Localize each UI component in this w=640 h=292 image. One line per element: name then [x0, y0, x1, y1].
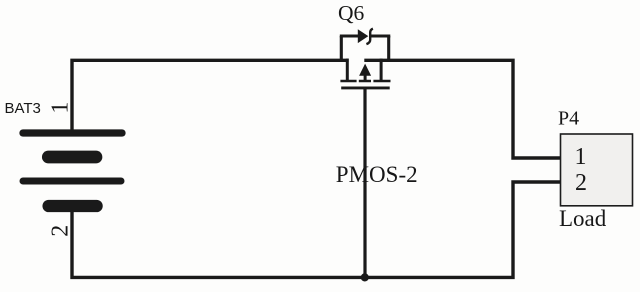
- svg-text:P4: P4: [558, 108, 579, 130]
- svg-text:2: 2: [48, 225, 74, 237]
- body-diode cathode lead: [371, 34, 391, 37]
- Q6 channel segment left: [340, 80, 356, 83]
- Q6 bulk arrow head (points up, PMOS): [359, 64, 371, 76]
- wire: gate lead down to bottom rail: [363, 89, 366, 277]
- battery BAT3 plate 2 (short plate): [48, 151, 96, 164]
- Q6 drain contact stub (right): [380, 59, 383, 80]
- Q6 channel segment center: [359, 80, 371, 83]
- Q6 gate plate: [341, 86, 390, 89]
- wire: P4 pin 2 stub, right vertical down, bottom rail, left vertical to battery negative: [72, 182, 561, 277]
- wire: battery positive to top rail (left vertical + top rail left segment): [72, 60, 349, 133]
- battery BAT3 plate 4 (short negative plate): [49, 200, 97, 212]
- Q6 channel segment right: [373, 80, 390, 83]
- Q6 bulk arrow shaft: [364, 74, 367, 82]
- svg-text:2: 2: [575, 170, 587, 196]
- body-diode anode lead: [340, 34, 358, 37]
- wire: top rail right segment, right vertical down to P4 pin 1 stub: [364, 60, 561, 158]
- body-diode curved cathode bar: [366, 29, 373, 44]
- body-diode anode triangle: [358, 29, 369, 43]
- battery BAT3 plate 3 (long plate): [23, 178, 121, 185]
- svg-text:PMOS-2: PMOS-2: [336, 162, 418, 187]
- battery BAT3 plate 1 (long positive plate): [23, 129, 122, 136]
- connector P4 body: [561, 134, 633, 206]
- Q6 source contact stub (left): [346, 59, 349, 80]
- transistor Q6 body-diode right post: [387, 36, 390, 60]
- svg-text:1: 1: [48, 102, 74, 114]
- junction dot at gate/bottom rail: [361, 273, 369, 281]
- transistor Q6 body-diode left post: [340, 36, 343, 60]
- svg-text:Q6: Q6: [338, 1, 365, 25]
- svg-text:1: 1: [575, 144, 587, 170]
- svg-text:Load: Load: [559, 206, 607, 231]
- svg-text:BAT3: BAT3: [5, 100, 41, 117]
